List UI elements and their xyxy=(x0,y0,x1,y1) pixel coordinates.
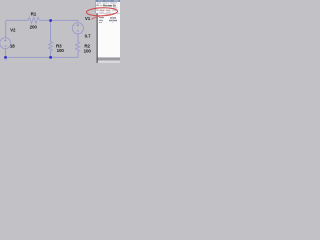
resistor R2 xyxy=(76,42,80,53)
wire below R2 xyxy=(77,53,79,58)
svg-text:V1: V1 xyxy=(85,16,91,21)
schematic page border line xyxy=(97,13,98,63)
inset window top-right xyxy=(95,0,120,14)
red annotation ellipse main xyxy=(86,7,117,16)
wire below V1 xyxy=(77,34,79,42)
schematic canvas background xyxy=(0,0,97,63)
wire left vertical xyxy=(5,20,7,37)
svg-text:100: 100 xyxy=(57,48,65,53)
ground xyxy=(3,59,9,62)
svg-text:V2: V2 xyxy=(10,27,16,32)
red annotation second pass arc xyxy=(92,15,112,20)
voltage source V2 xyxy=(0,38,11,49)
junction dot top xyxy=(49,19,51,21)
junction dot bottom-left xyxy=(4,56,6,58)
wire middle vertical lower xyxy=(50,51,52,58)
svg-text:0.7: 0.7 xyxy=(85,34,92,39)
voltage source V1 xyxy=(72,23,83,34)
wire below V2 xyxy=(5,49,7,58)
svg-text:100: 100 xyxy=(84,48,92,53)
wire top horizontal xyxy=(6,19,28,21)
wire right corner xyxy=(77,20,79,22)
svg-text:200: 200 xyxy=(30,24,38,29)
wire top right segment xyxy=(40,19,79,21)
svg-text:18: 18 xyxy=(10,44,15,49)
right white window xyxy=(98,0,121,63)
junction dot bottom-middle xyxy=(49,56,51,58)
wire middle vertical upper xyxy=(50,20,52,42)
resistor R1 xyxy=(28,17,40,23)
svg-text:R1: R1 xyxy=(31,11,37,16)
resistor R3 xyxy=(48,42,52,51)
svg-text:— Review Se: — Review Se xyxy=(100,3,117,7)
right window grey band (scrollbar) xyxy=(98,57,121,60)
wire bottom horizontal xyxy=(6,56,79,58)
